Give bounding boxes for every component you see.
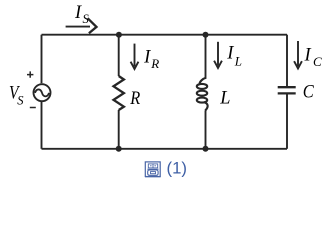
svg-text:I: I — [74, 3, 82, 23]
source minus sign — [30, 107, 36, 109]
source VS circle — [34, 84, 51, 101]
svg-text:L: L — [234, 53, 242, 68]
wire R branch upper — [118, 35, 120, 76]
svg-text:C: C — [313, 54, 322, 69]
wire right lower — [286, 94, 288, 148]
svg-text:L: L — [219, 89, 230, 109]
arrow IR — [134, 44, 136, 67]
svg-text:I: I — [304, 46, 312, 66]
caption glyph tu (figure) — [145, 162, 161, 177]
wire L branch lower — [205, 111, 207, 149]
wire left lower — [41, 102, 43, 149]
source VS sine — [35, 89, 49, 96]
arrow IL — [217, 42, 219, 66]
wire bottom — [42, 148, 288, 150]
source plus sign — [27, 71, 33, 77]
inductor L — [197, 78, 208, 111]
node bottom R junction — [116, 146, 122, 152]
svg-text:R: R — [150, 56, 159, 71]
wire left upper — [41, 35, 43, 83]
svg-text:R: R — [129, 89, 140, 109]
wire right upper — [286, 35, 288, 87]
arrow IS — [66, 26, 90, 28]
node top R junction — [116, 32, 122, 38]
svg-text:(1): (1) — [167, 159, 188, 178]
wire top — [42, 34, 288, 36]
svg-text:C: C — [303, 82, 315, 102]
arrow IC — [297, 41, 299, 66]
svg-text:I: I — [226, 44, 234, 64]
svg-text:S: S — [83, 12, 90, 26]
resistor R — [114, 76, 124, 110]
wire R branch lower — [118, 110, 120, 149]
svg-text:S: S — [17, 94, 24, 108]
node top L junction — [203, 32, 209, 38]
node bottom L junction — [203, 146, 209, 152]
wire L branch upper — [205, 35, 207, 79]
svg-text:I: I — [143, 48, 151, 68]
capacitor C — [278, 86, 296, 88]
